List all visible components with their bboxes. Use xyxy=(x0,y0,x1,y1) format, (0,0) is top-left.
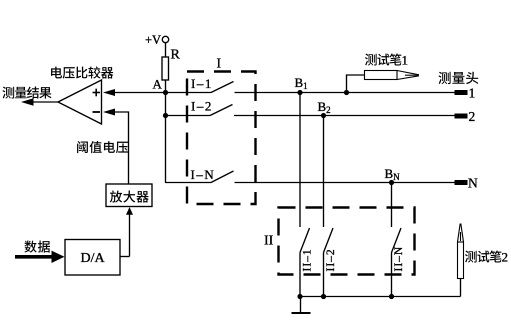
switch II–N lower wire xyxy=(391,253,393,297)
switch I-1 blade and wire to head 1 xyxy=(211,82,455,93)
switch II–1 blade xyxy=(300,228,310,253)
junction dot at I-2 row xyxy=(163,113,168,118)
switch II–2 lower wire xyxy=(323,253,325,297)
test pen 1 junction dot xyxy=(344,90,349,95)
svg-text:II–1: II–1 xyxy=(302,248,314,271)
head terminal bar N xyxy=(455,180,468,185)
svg-text:A: A xyxy=(153,77,163,92)
bus junction dot II-N xyxy=(389,294,394,299)
resistor R xyxy=(162,57,169,80)
power supply +V label xyxy=(145,33,161,47)
ground symbol xyxy=(292,297,311,314)
svg-text:I–1: I–1 xyxy=(191,76,213,91)
switch I-N blade and wire to head N xyxy=(211,171,455,183)
node B2 junction dot xyxy=(321,113,326,118)
node BN junction dot xyxy=(389,180,394,185)
wire from D/A output corner xyxy=(120,256,130,258)
thick data input arrow xyxy=(15,251,65,263)
svg-text:+V: +V xyxy=(145,33,161,47)
head terminal bar 2 xyxy=(455,114,468,119)
wire D/A to amplifier with up arrowhead xyxy=(126,207,133,257)
label measurement result xyxy=(2,87,51,99)
svg-text:1: 1 xyxy=(469,86,476,101)
test pen 2 probe body xyxy=(458,224,464,279)
svg-text:II–N: II–N xyxy=(393,246,405,272)
wire B1 down to switch II-1 xyxy=(299,93,301,228)
wire BN down to switch II-N xyxy=(391,183,393,228)
svg-text:1: 1 xyxy=(402,53,409,68)
test pen 1 probe body xyxy=(365,71,420,80)
switch II–N blade xyxy=(392,228,402,253)
wire +V to resistor xyxy=(165,43,167,57)
label threshold voltage xyxy=(77,141,128,153)
amplifier box label xyxy=(110,190,149,202)
svg-text:D/A: D/A xyxy=(81,251,106,266)
svg-text:II–2: II–2 xyxy=(325,248,337,271)
svg-text:2: 2 xyxy=(469,109,476,124)
op-amp U1 triangle xyxy=(58,80,102,124)
wire resistor to node A down to I-N row xyxy=(165,80,167,183)
test pen 2 label xyxy=(465,250,508,265)
svg-text:2: 2 xyxy=(502,250,509,265)
power terminal circle xyxy=(162,36,168,42)
svg-text:R: R xyxy=(171,48,181,63)
switch I-2 blade and wire to head 2 xyxy=(210,105,455,116)
label measuring head xyxy=(438,72,478,84)
amplifier box xyxy=(106,184,152,207)
node A junction dot xyxy=(163,90,168,95)
test pen 1 wire to line 1 xyxy=(347,75,365,93)
svg-text:N: N xyxy=(468,176,478,191)
bottom common bus wire xyxy=(300,296,461,298)
test pen 2 wire to bus xyxy=(460,279,462,297)
switch II–2 blade xyxy=(324,228,334,253)
svg-text:I–2: I–2 xyxy=(191,99,213,114)
wire minus input from amplifier with arrowhead xyxy=(103,109,129,185)
D/A converter box xyxy=(65,240,120,276)
bus junction dot II-2 xyxy=(321,294,326,299)
op-amp plus input sign xyxy=(93,89,101,97)
svg-text:II: II xyxy=(264,234,274,249)
svg-text:I: I xyxy=(217,56,222,71)
node B1 junction dot xyxy=(297,90,302,95)
test pen 1 label xyxy=(365,53,408,68)
head terminal bar 1 xyxy=(455,90,468,95)
wire A column to switch I-N xyxy=(165,182,211,184)
label voltage comparator xyxy=(51,66,113,78)
switch II–1 lower wire xyxy=(299,253,301,297)
dashed selector box II xyxy=(279,208,415,275)
svg-text:I–N: I–N xyxy=(191,167,216,182)
wire plus input from node A with arrowhead xyxy=(103,89,211,96)
label data xyxy=(24,241,50,253)
output wire with arrow to result xyxy=(21,98,58,105)
wire node to switch I-2 xyxy=(166,115,211,117)
bus junction dot II-1 xyxy=(297,294,302,299)
wire B2 down to switch II-2 xyxy=(323,116,325,228)
dashed selector box I xyxy=(187,72,256,205)
op-amp minus input sign xyxy=(93,111,101,113)
